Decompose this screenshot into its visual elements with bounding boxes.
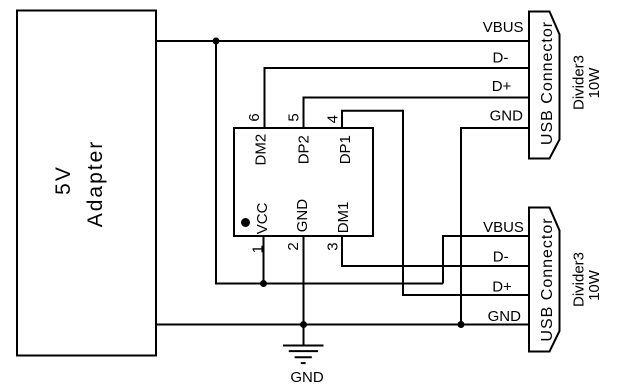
USB connector 1 body	[529, 12, 560, 159]
wire: VCC rail horizontal to x=443	[215, 283, 443, 285]
wire: vertical x=461 from GND1 down to GND rail	[460, 127, 462, 325]
svg-text:Adapter: Adapter	[84, 140, 107, 228]
IC U1 body	[234, 128, 373, 236]
svg-text:10W: 10W	[586, 269, 603, 301]
svg-text:6: 6	[246, 113, 263, 121]
wire: vertical x=403 down to D+ of connector 2	[402, 110, 404, 295]
svg-text:VCC: VCC	[254, 202, 271, 234]
svg-text:Divider3: Divider3	[571, 55, 588, 110]
svg-text:DM2: DM2	[253, 134, 270, 166]
svg-text:Divider3: Divider3	[571, 252, 588, 307]
ground symbol	[283, 346, 324, 364]
wire: vertical branch from VBUS1 down to VCC rail	[215, 41, 217, 284]
wire: GND stub of USB connector 1	[461, 127, 529, 129]
5V Adapter component body	[17, 11, 156, 356]
svg-text:GND: GND	[290, 369, 324, 386]
svg-text:DP2: DP2	[296, 135, 313, 164]
wire: U1 pin 5 up to D+ net of connector 1	[303, 98, 305, 129]
wire: D-1 horizontal into USB connector 1	[264, 67, 530, 69]
svg-text:VBUS: VBUS	[483, 219, 524, 236]
svg-text:1: 1	[249, 245, 266, 253]
svg-text:5: 5	[286, 113, 303, 121]
svg-text:2: 2	[285, 242, 302, 250]
wire: U1 pin 4 up stub	[341, 111, 343, 128]
svg-text:DP1: DP1	[337, 135, 354, 164]
wire: D+2 horizontal into USB connector 2	[402, 294, 529, 296]
wire: U1 pin 1 down to VCC rail	[263, 236, 265, 284]
svg-text:D+: D+	[492, 78, 512, 95]
wire: pin4 horizontal to x=403	[341, 110, 403, 112]
svg-text:10W: 10W	[586, 67, 603, 99]
svg-text:3: 3	[324, 242, 341, 250]
junction: GND rail at x=461	[458, 321, 465, 328]
wire: D+1 horizontal into USB connector 1	[303, 97, 530, 99]
svg-text:GND: GND	[294, 199, 311, 233]
svg-text:D-: D-	[493, 249, 509, 266]
wire: bottom GND rail from adapter to USB connector 2	[156, 324, 529, 326]
wire: U1 pin 6 up to D- net of connector 1	[264, 68, 266, 128]
svg-text:DM1: DM1	[335, 202, 352, 234]
USB connector 2 body	[529, 208, 560, 352]
svg-text:4: 4	[325, 115, 342, 123]
wire: U1 pin 3 down stub	[341, 236, 343, 266]
svg-text:D+: D+	[492, 279, 512, 296]
svg-text:5V: 5V	[52, 165, 75, 195]
U1 pin-1 indicator dot	[241, 218, 250, 227]
junction: VCC rail at U1 pin 1	[260, 280, 267, 287]
svg-text:GND: GND	[488, 308, 521, 325]
junction: VBUS1 / VCC branch	[213, 38, 220, 45]
wire: VBUS2 horizontal into USB connector 2	[442, 235, 529, 237]
svg-text:VBUS: VBUS	[483, 19, 524, 36]
svg-text:USB Connector: USB Connector	[539, 21, 556, 145]
wire: D-2 horizontal into USB connector 2	[341, 265, 529, 267]
junction: GND rail at U1 pin 2 / ground symbol	[300, 321, 307, 328]
wire: adapter 5V output to VBUS of USB connector 1 (net VBUS1)	[156, 40, 529, 42]
wire: U1 pin 2 down to GND rail and ground symbol	[303, 236, 305, 346]
svg-text:GND: GND	[490, 108, 523, 125]
svg-text:USB Connector: USB Connector	[539, 217, 556, 341]
wire: vertical up from VCC rail to VBUS of USB connector 2	[442, 236, 444, 284]
svg-text:D-: D-	[493, 49, 509, 66]
